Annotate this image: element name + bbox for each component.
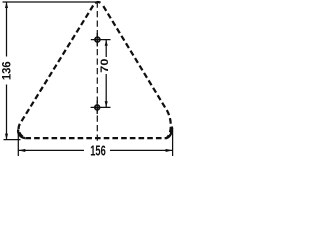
svg-text:70: 70 [98, 58, 111, 72]
dim 136: dimension line lower segment [6, 85, 8, 140]
dim 156: arrow left [18, 149, 25, 152]
dim 156: right extension line [172, 128, 174, 156]
dim 156: arrow right [166, 149, 173, 152]
upper hole solid vertical [96, 33, 98, 47]
bottom-right corner solid hook [167, 127, 173, 139]
dim 156: left extension line [17, 132, 19, 157]
dim 156: dimension line right segment [110, 149, 173, 151]
upper hole circle [95, 37, 100, 42]
dim 136: arrow down [5, 134, 8, 140]
lower hole circle [95, 105, 100, 110]
dim 70: dimension line upper segment [105, 40, 107, 57]
svg-text:156: 156 [90, 142, 106, 159]
lower hole solid vertical [96, 101, 98, 114]
dim 70: arrow up [105, 40, 108, 46]
dim 70: arrow down [105, 101, 108, 107]
upper hole horizontal crosshair [91, 39, 111, 41]
svg-text:136: 136 [2, 61, 14, 80]
dim 136: bottom extension line [4, 139, 21, 141]
dim 136: top extension line [3, 1, 97, 3]
dim 136: arrow up [5, 2, 8, 8]
dim 156: dimension line left segment [18, 149, 84, 151]
vertical centerline [96, 1, 98, 142]
dim 70: dimension line lower segment [105, 74, 107, 107]
bottom-left corner solid hook [18, 130, 25, 139]
lower hole horizontal crosshair [91, 106, 111, 108]
triangle reflector outline (dashed, rounded corners) [19, 2, 171, 138]
dim 136: dimension line upper segment [6, 2, 8, 57]
